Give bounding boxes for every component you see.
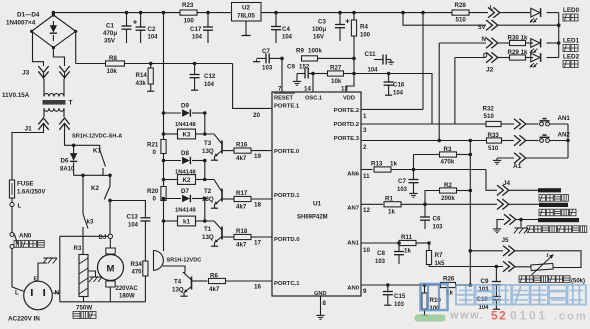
wire pin10 AN1 row: [361, 242, 398, 244]
transistor T2 13Q: [221, 189, 223, 202]
wire D6/K1 bottom node: [74, 174, 110, 176]
svg-text:PORTE.0: PORTE.0: [274, 149, 300, 155]
resistor R9 100k: [302, 56, 318, 61]
capacitor C4 104: [275, 13, 277, 27]
svg-text:12: 12: [363, 207, 370, 214]
svg-text:J1: J1: [25, 126, 33, 133]
diode D8 1N4148: [162, 159, 166, 163]
diode D7 1N4148: [162, 197, 166, 201]
relay coil K2: [162, 178, 166, 182]
resistor R2 200k: [425, 191, 440, 205]
heater element 750W: [79, 255, 88, 297]
chassis ground of shell: [520, 220, 522, 228]
svg-text:R28: R28: [455, 2, 467, 9]
svg-text:R6: R6: [210, 273, 218, 280]
resistor R14 43k: [150, 64, 152, 69]
wire terminal to switch AN0: [11, 207, 13, 233]
svg-text:2: 2: [363, 144, 367, 151]
capacitor C8 103: [398, 243, 400, 252]
label AN0 micro switch chinese: [14, 241, 21, 248]
wire R6 to chip pin16: [226, 280, 273, 282]
wire N row to pin2 row: [438, 43, 440, 141]
svg-text:R26: R26: [443, 276, 455, 283]
svg-text:C4: C4: [282, 26, 290, 33]
connector J5 NTC top: [469, 249, 473, 253]
svg-text:200k: 200k: [441, 195, 455, 202]
wire to chip pin 20: [233, 64, 272, 109]
connector to AN1: [514, 119, 520, 129]
svg-text:C12: C12: [204, 73, 216, 80]
wire bottom AC bus: [60, 301, 146, 303]
resistor R23 100: [180, 10, 197, 15]
svg-text:T2: T2: [204, 188, 212, 195]
capacitor C16 104: [387, 72, 391, 76]
ground of C7b: [413, 191, 415, 193]
svg-text:LED0: LED0: [563, 7, 580, 14]
svg-text:8: 8: [323, 300, 327, 307]
wire pin12 AN7 row: [361, 203, 383, 205]
svg-text:PORTD.0: PORTD.0: [274, 237, 300, 243]
svg-text:4k7: 4k7: [209, 286, 220, 293]
svg-text:7: 7: [278, 86, 282, 93]
svg-text:C13: C13: [127, 214, 139, 221]
svg-text:R3: R3: [74, 245, 82, 252]
LED1: [531, 39, 540, 48]
svg-text:0101: 0101: [510, 309, 548, 323]
watermark text jiadian weixiu ziliao wang: [456, 285, 586, 305]
svg-text:OSC.1: OSC.1: [305, 96, 322, 102]
svg-text:PORTE.2: PORTE.2: [334, 108, 360, 114]
svg-text:13Q: 13Q: [172, 287, 184, 294]
resistor R11 1k: [399, 240, 416, 245]
resistor R33 510: [470, 140, 486, 142]
ground of R14: [150, 89, 152, 91]
wire LED cathode bus: [558, 13, 560, 58]
svg-text:R4: R4: [360, 24, 368, 31]
transformer T: [44, 94, 49, 97]
wire C7/R9 node to pin7: [280, 57, 284, 61]
wire rail to relay coil K1: [163, 201, 165, 252]
capacitor C17 104: [207, 13, 209, 27]
resistor R13 1k: [374, 167, 391, 172]
wire J1 right feed to K1/D6: [65, 131, 100, 145]
chip GND pin 8: [320, 296, 322, 313]
svg-text:J3: J3: [22, 70, 30, 77]
wire J1 left down to fuse line: [12, 131, 44, 180]
wire button return bus: [567, 124, 569, 158]
svg-text:11V0.15A: 11V0.15A: [2, 92, 30, 99]
svg-text:103: 103: [397, 187, 408, 193]
svg-text:C7: C7: [262, 48, 270, 55]
svg-text:103: 103: [262, 65, 273, 72]
ground of C11: [390, 60, 392, 63]
svg-text:19: 19: [254, 153, 262, 160]
LED0 power: [531, 8, 540, 17]
svg-text:(50k): (50k): [571, 279, 585, 285]
ground of C16: [388, 93, 390, 95]
svg-text:k1: k1: [183, 218, 190, 225]
wire R13 to divider node: [391, 169, 414, 171]
svg-text:D6: D6: [61, 158, 69, 165]
wire VDD node to pin13: [353, 58, 355, 73]
svg-text:4k7: 4k7: [236, 242, 247, 249]
thermistor NTC 50k: [531, 263, 553, 270]
svg-text:13Q: 13Q: [202, 148, 214, 155]
electrode low-level bar: [539, 203, 568, 207]
svg-text:103: 103: [375, 259, 386, 265]
svg-text:1: 1: [363, 113, 367, 120]
switch k3: [82, 175, 84, 214]
relay contact K1: [99, 145, 101, 150]
wire pin3 PORTD.2 row: [361, 123, 486, 125]
svg-text:43k: 43k: [136, 80, 147, 87]
terminal DJ motor connector: [108, 234, 112, 238]
svg-text:k3: k3: [87, 219, 94, 226]
resistor R3 470k: [413, 155, 415, 170]
svg-text:R21: R21: [147, 142, 159, 149]
wire pin9 AN0 row: [361, 284, 441, 286]
svg-text:104: 104: [368, 68, 379, 74]
capacitor C1 470u 35V: [126, 13, 128, 26]
label anti-overflow electrode: [539, 195, 546, 202]
wire K2 node to snubber C13: [110, 201, 145, 218]
svg-text:T1: T1: [204, 226, 212, 233]
svg-text:E: E: [34, 277, 38, 283]
svg-text:D9: D9: [181, 103, 189, 110]
wire bridge left AC to J3: [32, 31, 44, 66]
capacitor C15 103: [386, 283, 390, 287]
electrode shell bar: [538, 218, 579, 222]
connector J5 NTC bottom: [429, 266, 503, 268]
capacitor C9 152: [297, 73, 305, 75]
svg-text:R8: R8: [109, 55, 117, 62]
svg-text:AN6: AN6: [347, 172, 360, 178]
connector J4 shell: [497, 220, 504, 227]
svg-text:17: 17: [254, 240, 262, 247]
svg-text:510: 510: [456, 17, 467, 24]
resistor R18 4k7: [222, 236, 235, 238]
watermark logo block: [415, 284, 448, 322]
svg-text:R34: R34: [131, 261, 143, 268]
svg-text:9: 9: [363, 288, 367, 295]
svg-text:1k: 1k: [388, 209, 395, 216]
svg-text:13: 13: [341, 86, 348, 93]
svg-text:0: 0: [153, 196, 157, 203]
button AN2: [540, 139, 544, 143]
wire VDD node right: [354, 73, 389, 75]
svg-text:10k: 10k: [331, 78, 342, 85]
resistor R27 10k: [328, 71, 344, 76]
relay coil K3: [162, 132, 166, 136]
connector A1 ground return: [496, 158, 498, 160]
motor M 220VAC 180W: [106, 248, 115, 254]
svg-text:L: L: [18, 203, 22, 210]
connector J1: [38, 118, 48, 124]
svg-text:PORTD.2: PORTD.2: [333, 122, 359, 128]
voltage regulator U2 78L05: [232, 3, 262, 22]
svg-text:100k: 100k: [308, 48, 322, 55]
button AN1: [540, 122, 544, 126]
svg-text:K1: K1: [93, 148, 101, 155]
ground of C15: [387, 303, 389, 305]
svg-text:PORTE.3: PORTE.3: [334, 136, 360, 142]
svg-text:R23: R23: [182, 2, 194, 9]
relay coil k1: [162, 219, 166, 223]
svg-text:R2: R2: [444, 182, 452, 189]
wire DJ to motor: [109, 239, 111, 249]
capacitor C3 100u 16V: [339, 13, 341, 25]
capacitor C10 104: [492, 296, 501, 298]
svg-text:11: 11: [363, 173, 370, 180]
svg-text:C15: C15: [394, 293, 406, 300]
svg-text:R32: R32: [483, 106, 495, 113]
svg-text:R17: R17: [236, 190, 248, 197]
svg-text:10k: 10k: [107, 68, 118, 75]
svg-text:100μ: 100μ: [312, 26, 326, 33]
svg-text:T3: T3: [204, 140, 212, 147]
wire C9 to pin14: [311, 72, 315, 76]
svg-text:J5: J5: [502, 237, 510, 244]
ground of C9: [296, 79, 298, 81]
svg-text:750W: 750W: [76, 305, 92, 312]
svg-text:C6: C6: [433, 216, 441, 223]
ground of U2: [245, 21, 247, 35]
svg-text:LED2: LED2: [563, 54, 580, 61]
svg-text:152: 152: [299, 64, 310, 71]
svg-text:1N4007×4: 1N4007×4: [6, 20, 36, 27]
svg-text:M: M: [107, 264, 115, 275]
svg-text:C11: C11: [365, 51, 377, 58]
wire rail R21-R20: [163, 154, 165, 187]
svg-text:510: 510: [488, 145, 499, 152]
bridge rectifier D1-D4: [32, 15, 76, 48]
wire k3 to heater: [82, 232, 84, 255]
svg-text:SR1H-12VDC-SH-A: SR1H-12VDC-SH-A: [72, 134, 122, 140]
capacitor C12 104: [194, 64, 196, 75]
svg-text:78L05: 78L05: [237, 13, 255, 20]
svg-text:18: 18: [254, 202, 262, 209]
svg-text:PORTD.1: PORTD.1: [274, 193, 300, 199]
svg-text:220VAC: 220VAC: [116, 286, 139, 292]
svg-text:D8: D8: [181, 150, 189, 157]
svg-text:A1: A1: [513, 163, 522, 170]
LED2: [531, 53, 540, 62]
svg-text:U2: U2: [242, 5, 251, 12]
connector J4 low-level: [497, 199, 503, 209]
wire coil to T4 collector: [163, 266, 186, 273]
svg-text:4k7: 4k7: [236, 204, 247, 211]
fuse FUSE 1.6A/250V: [9, 180, 14, 198]
connector to AN2: [514, 135, 520, 145]
svg-text:470μ: 470μ: [103, 30, 117, 37]
wire bridge right to R8 row: [75, 31, 77, 63]
wire heater to bottom bus: [83, 297, 85, 302]
wire divider rail vertical: [469, 141, 471, 286]
svg-text:R27: R27: [330, 65, 342, 72]
svg-text:510: 510: [484, 113, 495, 120]
svg-text:VDD: VDD: [343, 96, 355, 102]
svg-text:14: 14: [304, 86, 311, 93]
svg-text:103: 103: [433, 225, 444, 231]
relay contact K2: [109, 175, 111, 186]
resistor R16 4k7: [222, 150, 235, 152]
capacitor C7b 103: [413, 170, 415, 180]
wire D9/K3 node: [204, 113, 206, 134]
capacitor C9b 103: [495, 265, 499, 269]
wire 5V feed row: [403, 13, 486, 26]
wire pin11 AN6 row: [361, 169, 373, 171]
svg-text:t: t: [547, 253, 549, 259]
svg-text:FUSE: FUSE: [17, 181, 34, 188]
svg-text:DJ: DJ: [99, 234, 107, 241]
svg-text:R11: R11: [401, 234, 413, 241]
svg-text:1N4148: 1N4148: [175, 122, 196, 128]
transistor T3 13Q: [221, 141, 223, 154]
svg-text:35V: 35V: [104, 38, 116, 45]
svg-text:3: 3: [363, 127, 367, 134]
wire AN6 node to J4: [414, 169, 487, 171]
svg-text:C17: C17: [190, 26, 202, 33]
svg-text:104: 104: [204, 82, 215, 88]
svg-text:R3: R3: [444, 146, 452, 153]
svg-text:www.: www.: [449, 310, 484, 322]
resistor R21 0: [161, 140, 166, 154]
svg-text:8A10: 8A10: [60, 167, 75, 173]
svg-text:C9: C9: [287, 64, 295, 71]
resistor R19 100: [423, 283, 427, 287]
svg-text:R9: R9: [296, 48, 304, 55]
svg-text:RESET: RESET: [274, 96, 293, 102]
svg-text:C1: C1: [106, 23, 114, 30]
resistor R8 10k: [76, 63, 106, 65]
svg-text:100: 100: [360, 33, 371, 39]
svg-text:1.6A/250V: 1.6A/250V: [17, 190, 45, 196]
svg-text:AN7: AN7: [347, 206, 360, 212]
ground of C10: [495, 307, 497, 309]
transistor T1 13Q: [221, 227, 223, 240]
svg-text:5V: 5V: [478, 24, 486, 31]
svg-text:D1—D4: D1—D4: [17, 12, 40, 19]
svg-text:104: 104: [192, 35, 203, 41]
svg-text:4k7: 4k7: [236, 155, 247, 162]
svg-text:C2: C2: [148, 26, 156, 33]
wire pin2 PORTE.3 row: [361, 140, 487, 142]
wire bridge top to bus: [52, 13, 54, 15]
diode D9 1N4148: [162, 111, 166, 115]
transistor T4 13Q: [191, 277, 193, 290]
svg-text:104: 104: [148, 35, 159, 41]
svg-text:D7: D7: [181, 188, 189, 195]
svg-text:R7: R7: [435, 252, 443, 259]
wire pin1 PORTE.2 to bus: [361, 108, 423, 110]
svg-text:L: L: [15, 290, 19, 297]
resistor R26 1k: [441, 282, 456, 287]
wire D8/K2 node: [204, 161, 206, 180]
svg-text:SH69P42M: SH69P42M: [297, 215, 328, 221]
svg-text:104: 104: [282, 35, 293, 41]
svg-text:PORTC.1: PORTC.1: [274, 281, 300, 287]
resistor R17 4k7: [222, 198, 235, 200]
switch AN0 micro-switch: [10, 233, 14, 237]
resistor R7 1k5: [428, 243, 430, 250]
diode D6 8A10: [72, 144, 76, 148]
svg-text:AN1: AN1: [347, 241, 360, 247]
svg-text:52: 52: [491, 309, 507, 323]
relay coil SR1H-12VDC: [154, 251, 164, 271]
wire C16 node to R32 row: [389, 74, 432, 125]
svg-text:104: 104: [393, 91, 404, 97]
capacitor C2 104: [140, 13, 142, 27]
wire R17 to chip: [251, 198, 272, 200]
svg-text:C3: C3: [318, 19, 326, 26]
resistor R28 510: [452, 10, 469, 15]
svg-text:180W: 180W: [119, 294, 135, 300]
connector J4 anti-overflow: [497, 185, 503, 195]
earth ground E of plug: [38, 263, 47, 281]
capacitor C7 103: [256, 60, 258, 62]
connector J3: [38, 66, 48, 72]
wire R11 to R7: [416, 242, 429, 244]
resistor R1 1k: [384, 202, 401, 207]
wire R1 to R2 node: [401, 203, 497, 205]
wire R8 row to pin20 corner: [125, 63, 233, 65]
wire motor to bottom bus: [109, 287, 111, 302]
svg-text:R18: R18: [236, 228, 248, 235]
svg-text:T4: T4: [174, 279, 182, 286]
wire R34 to bottom bus: [144, 276, 146, 302]
svg-text:16: 16: [254, 284, 262, 291]
wire D7/k1 node: [204, 199, 206, 222]
svg-text:.com: .com: [554, 311, 588, 323]
svg-text:R20: R20: [147, 188, 159, 195]
electrode anti-overflow bar: [538, 188, 561, 192]
svg-text:AN0: AN0: [347, 286, 360, 292]
svg-text:103: 103: [394, 302, 405, 308]
svg-text:C8: C8: [377, 250, 385, 257]
svg-text:470: 470: [132, 270, 143, 276]
svg-text:C16: C16: [393, 82, 405, 89]
svg-text:J2: J2: [486, 67, 494, 74]
resistor R34 470: [144, 221, 146, 261]
svg-text:SR1H-12VDC: SR1H-12VDC: [167, 258, 202, 264]
svg-text:C7: C7: [398, 178, 406, 185]
wire D row to pin3 row: [454, 58, 456, 125]
wire bridge bottom AC to J3: [53, 48, 64, 66]
svg-text:R1: R1: [385, 196, 393, 203]
svg-text:C9: C9: [481, 278, 489, 285]
terminal L circle: [10, 202, 14, 206]
wire fuse to terminal L: [11, 198, 13, 203]
wire R16 to chip: [251, 150, 272, 152]
svg-text:K2: K2: [91, 185, 99, 192]
ground of chip: [320, 313, 322, 315]
svg-text:16V: 16V: [313, 34, 325, 41]
resistor R4 100: [353, 13, 355, 20]
svg-text:470k: 470k: [441, 159, 455, 166]
svg-text:AC220V IN: AC220V IN: [8, 316, 40, 323]
svg-text:100: 100: [184, 18, 195, 25]
svg-text:104: 104: [128, 223, 139, 229]
wire plug N up to DJ line: [53, 236, 60, 293]
svg-text:13Q: 13Q: [202, 234, 214, 241]
wire AN0 to plug L: [11, 249, 13, 288]
IC U1 SH69P42M: [272, 92, 361, 296]
wire K2 to DJ terminal: [109, 204, 111, 234]
label motor and heater shell: [527, 226, 534, 233]
svg-text:LED1: LED1: [563, 38, 580, 45]
label low water level electrode: [539, 209, 546, 216]
wire plug N to bottom bus: [59, 293, 61, 302]
